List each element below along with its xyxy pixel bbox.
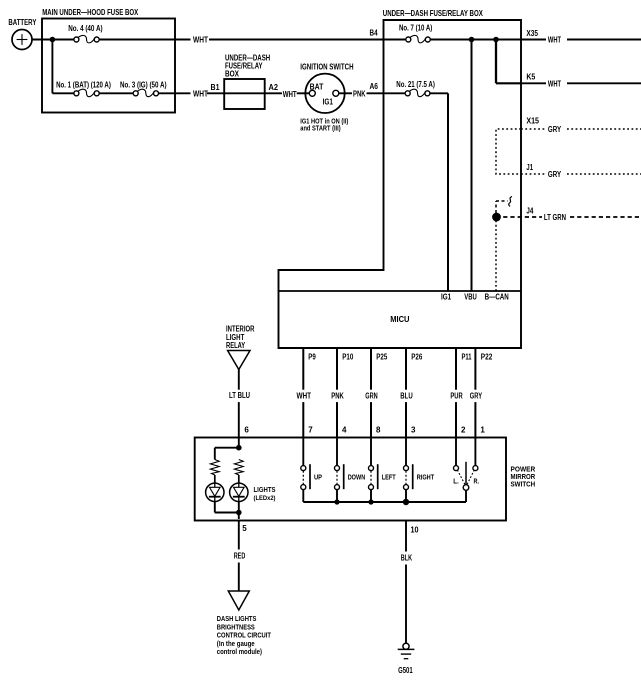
svg-text:5: 5 <box>242 524 247 533</box>
svg-text:VBU: VBU <box>464 293 477 302</box>
svg-text:WHT: WHT <box>548 36 561 45</box>
svg-text:BOX: BOX <box>225 70 240 79</box>
svg-text:LEFT: LEFT <box>382 473 396 482</box>
svg-text:IGNITION SWITCH: IGNITION SWITCH <box>300 62 353 71</box>
svg-text:A2: A2 <box>269 83 279 92</box>
svg-text:2: 2 <box>461 426 466 435</box>
svg-text:X15: X15 <box>526 117 539 126</box>
svg-text:(LEDx2): (LEDx2) <box>254 495 276 502</box>
svg-text:L.: L. <box>453 477 459 486</box>
svg-text:SWITCH: SWITCH <box>511 480 536 489</box>
svg-text:No. 3 (IG) (50 A): No. 3 (IG) (50 A) <box>120 81 167 90</box>
svg-text:MICU: MICU <box>390 315 409 324</box>
svg-text:BLU: BLU <box>400 392 413 401</box>
svg-text:No. 21 (7.5 A): No. 21 (7.5 A) <box>396 80 435 89</box>
svg-text:BLK: BLK <box>401 554 413 563</box>
svg-text:WHT: WHT <box>193 90 208 99</box>
svg-text:X35: X35 <box>526 29 538 38</box>
svg-text:P11: P11 <box>462 353 472 362</box>
svg-text:GRY: GRY <box>548 125 562 134</box>
svg-text:P25: P25 <box>376 353 387 362</box>
svg-text:DOWN: DOWN <box>348 473 366 482</box>
svg-text:No. 7 (10 A): No. 7 (10 A) <box>399 24 433 33</box>
svg-text:10: 10 <box>411 526 419 535</box>
svg-text:LIGHTS: LIGHTS <box>254 485 276 494</box>
svg-text:J4: J4 <box>526 207 533 216</box>
svg-text:B4: B4 <box>370 29 379 38</box>
svg-text:P9: P9 <box>308 353 316 362</box>
svg-text:B1: B1 <box>211 83 220 92</box>
svg-text:BAT: BAT <box>310 82 324 91</box>
svg-text:B—CAN: B—CAN <box>485 293 509 302</box>
svg-text:LT BLU: LT BLU <box>229 391 250 400</box>
svg-text:J1: J1 <box>526 163 533 172</box>
svg-text:7: 7 <box>308 426 313 435</box>
svg-text:8: 8 <box>376 426 381 435</box>
svg-text:P22: P22 <box>481 353 493 362</box>
svg-text:RED: RED <box>234 552 246 561</box>
svg-text:PNK: PNK <box>331 392 344 401</box>
svg-text:UP: UP <box>314 473 322 482</box>
svg-text:IG1: IG1 <box>323 98 334 107</box>
svg-text:K5: K5 <box>526 72 535 81</box>
svg-text:4: 4 <box>342 426 347 435</box>
svg-text:UNDER—DASH FUSE/RELAY BOX: UNDER—DASH FUSE/RELAY BOX <box>383 8 483 18</box>
svg-text:GRY: GRY <box>548 170 562 179</box>
svg-text:P26: P26 <box>411 353 422 362</box>
svg-text:control module): control module) <box>217 647 263 656</box>
svg-text:R.: R. <box>474 477 480 486</box>
svg-text:WHT: WHT <box>193 36 208 45</box>
svg-text:P10: P10 <box>342 353 353 362</box>
svg-text:RELAY: RELAY <box>226 341 246 350</box>
svg-text:G501: G501 <box>398 666 413 675</box>
svg-text:6: 6 <box>244 426 249 435</box>
svg-text:GRY: GRY <box>470 392 483 401</box>
svg-text:BATTERY: BATTERY <box>8 18 37 27</box>
svg-text:LT GRN: LT GRN <box>544 213 566 222</box>
svg-text:3: 3 <box>411 426 416 435</box>
svg-text:WHT: WHT <box>283 90 297 99</box>
svg-text:GRN: GRN <box>365 392 378 401</box>
svg-text:A6: A6 <box>370 82 379 91</box>
svg-text:No. 1 (BAT) (120 A): No. 1 (BAT) (120 A) <box>56 81 111 90</box>
svg-text:IG1 HOT in ON (II): IG1 HOT in ON (II) <box>300 118 348 125</box>
svg-text:PUR: PUR <box>450 392 462 401</box>
svg-text:WHT: WHT <box>548 79 561 88</box>
svg-text:PNK: PNK <box>353 90 366 99</box>
svg-text:WHT: WHT <box>297 392 312 401</box>
svg-text:1: 1 <box>480 426 485 435</box>
svg-text:RIGHT: RIGHT <box>417 473 435 482</box>
svg-text:IG1: IG1 <box>441 293 452 302</box>
svg-text:and START (III): and START (III) <box>300 126 340 133</box>
svg-text:No. 4 (40 A): No. 4 (40 A) <box>68 24 103 33</box>
svg-text:MAIN UNDER—HOOD FUSE BOX: MAIN UNDER—HOOD FUSE BOX <box>42 7 138 17</box>
